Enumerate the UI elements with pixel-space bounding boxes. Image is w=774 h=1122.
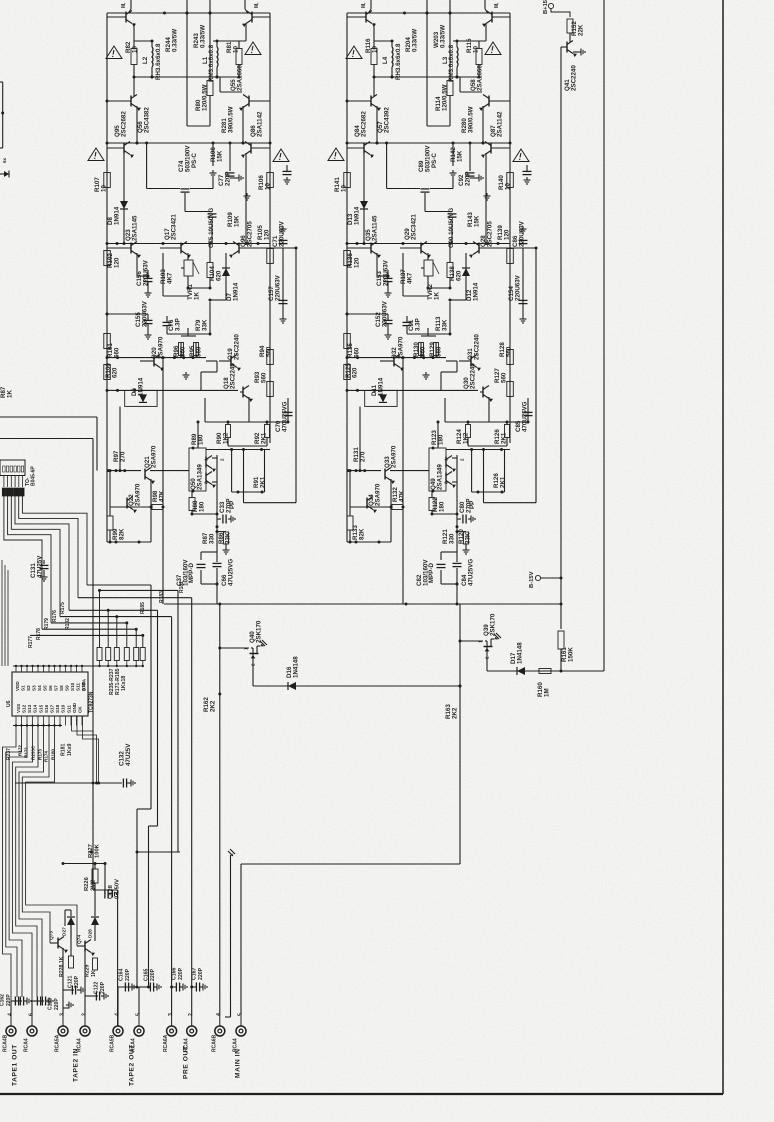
svg-text:R183: R183 bbox=[159, 591, 165, 603]
svg-text:2SA1145: 2SA1145 bbox=[371, 215, 378, 241]
svg-text:2SA1668: 2SA1668 bbox=[476, 65, 483, 91]
svg-text:1K: 1K bbox=[91, 970, 97, 977]
svg-text:C165: C165 bbox=[144, 968, 150, 981]
svg-text:C163: C163 bbox=[48, 998, 54, 1010]
svg-text:100K: 100K bbox=[94, 843, 100, 858]
svg-text:GND: GND bbox=[72, 702, 77, 713]
svg-text:2M2: 2M2 bbox=[90, 880, 96, 891]
svg-text:2SC2240: 2SC2240 bbox=[469, 363, 476, 389]
svg-text:560: 560 bbox=[435, 346, 442, 357]
svg-text:120: 120 bbox=[263, 229, 270, 240]
svg-text:180: 180 bbox=[198, 501, 205, 512]
svg-text:S7: S7 bbox=[53, 685, 58, 691]
svg-text:220P: 220P bbox=[100, 981, 106, 994]
svg-text:82K: 82K bbox=[358, 528, 365, 540]
svg-text:2SA1142: 2SA1142 bbox=[496, 111, 503, 137]
svg-text:PS-C: PS-C bbox=[191, 153, 198, 168]
svg-text:1N914: 1N914 bbox=[113, 206, 120, 225]
svg-text:120: 120 bbox=[503, 229, 510, 240]
svg-text:120: 120 bbox=[113, 257, 120, 268]
svg-text:1N914: 1N914 bbox=[377, 377, 384, 396]
svg-text:RH3.6x6x0.8: RH3.6x6x0.8 bbox=[155, 43, 162, 80]
svg-text:6x: 6x bbox=[2, 157, 7, 163]
svg-text:S4: S4 bbox=[37, 685, 42, 691]
svg-text:1N914: 1N914 bbox=[472, 282, 479, 301]
svg-text:5: 5 bbox=[237, 1013, 243, 1016]
svg-text:15K: 15K bbox=[233, 215, 240, 227]
svg-text:15K: 15K bbox=[473, 215, 480, 227]
svg-text:82K: 82K bbox=[118, 528, 125, 540]
svg-text:R180: R180 bbox=[51, 749, 56, 760]
svg-text:2SC3421: 2SC3421 bbox=[170, 214, 177, 240]
svg-text:C164: C164 bbox=[119, 968, 125, 981]
svg-text:120: 120 bbox=[353, 257, 360, 268]
svg-text:R171: R171 bbox=[24, 747, 29, 758]
svg-text:620: 620 bbox=[455, 270, 462, 281]
svg-text:220P: 220P bbox=[125, 968, 131, 981]
svg-text:4K7: 4K7 bbox=[166, 272, 173, 284]
svg-text:120/0.5W: 120/0.5W bbox=[201, 84, 208, 111]
svg-text:C75 10U50VG: C75 10U50VG bbox=[208, 208, 215, 248]
svg-text:C166: C166 bbox=[172, 967, 178, 980]
svg-text:C122: C122 bbox=[94, 981, 100, 994]
svg-text:220U63V: 220U63V bbox=[274, 274, 281, 301]
svg-text:2SA970: 2SA970 bbox=[157, 336, 164, 359]
svg-text:C162: C162 bbox=[0, 994, 6, 1006]
svg-text:S18: S18 bbox=[55, 704, 60, 713]
svg-text:15K: 15K bbox=[456, 150, 463, 162]
svg-text:VDD: VDD bbox=[15, 681, 20, 691]
svg-text:S13: S13 bbox=[27, 704, 32, 713]
svg-text:620: 620 bbox=[215, 270, 222, 281]
svg-text:2: 2 bbox=[188, 1013, 194, 1016]
svg-text:2SK170: 2SK170 bbox=[489, 613, 496, 636]
svg-text:S6: S6 bbox=[48, 685, 53, 691]
svg-text:TAPE2 IN: TAPE2 IN bbox=[73, 1048, 80, 1082]
svg-text:180: 180 bbox=[197, 434, 204, 445]
svg-text:L4: L4 bbox=[382, 56, 389, 64]
svg-text:47K: 47K bbox=[158, 490, 165, 502]
svg-text:470U25VG: 470U25VG bbox=[521, 401, 528, 432]
svg-text:2K1: 2K1 bbox=[259, 476, 266, 488]
svg-text:220U63V: 220U63V bbox=[278, 220, 285, 247]
svg-text:S10: S10 bbox=[61, 704, 66, 713]
svg-text:0.33/5W: 0.33/5W bbox=[171, 29, 178, 52]
svg-text:3: 3 bbox=[59, 1013, 65, 1016]
svg-text:47U25VG: 47U25VG bbox=[467, 559, 474, 586]
svg-text:D28: D28 bbox=[88, 929, 94, 938]
svg-text:220P: 220P bbox=[198, 967, 204, 980]
svg-text:1K: 1K bbox=[193, 292, 200, 300]
svg-text:M,: M, bbox=[494, 2, 500, 8]
svg-text:2SA1349: 2SA1349 bbox=[436, 464, 443, 490]
svg-text:560: 560 bbox=[500, 372, 507, 383]
svg-text:C121: C121 bbox=[68, 975, 74, 988]
svg-text:R182: R182 bbox=[179, 581, 185, 593]
svg-text:R178: R178 bbox=[36, 628, 42, 640]
svg-text:C128: C128 bbox=[108, 884, 114, 899]
svg-text:L2: L2 bbox=[142, 56, 149, 64]
svg-text:RCA5A: RCA5A bbox=[55, 1034, 61, 1052]
svg-text:M,: M, bbox=[121, 2, 127, 8]
svg-text:R174: R174 bbox=[44, 751, 49, 762]
svg-text:R173: R173 bbox=[38, 749, 43, 760]
svg-text:270: 270 bbox=[359, 451, 366, 462]
svg-text:1N4148: 1N4148 bbox=[516, 642, 523, 664]
svg-text:RCA5B: RCA5B bbox=[110, 1034, 116, 1052]
svg-text:10: 10 bbox=[100, 185, 107, 192]
svg-text:220U63V: 220U63V bbox=[381, 300, 388, 327]
svg-text:2K2: 2K2 bbox=[451, 707, 458, 719]
svg-text:220P: 220P bbox=[6, 994, 12, 1006]
svg-text:4: 4 bbox=[216, 1013, 222, 1016]
svg-text:S12: S12 bbox=[22, 704, 27, 713]
svg-text:MPP-D: MPP-D bbox=[428, 563, 435, 583]
svg-text:2SA970: 2SA970 bbox=[374, 483, 381, 506]
svg-text:560: 560 bbox=[265, 346, 272, 357]
svg-text:330: 330 bbox=[448, 533, 455, 544]
svg-text:180: 180 bbox=[437, 434, 444, 445]
svg-text:620: 620 bbox=[111, 367, 118, 378]
svg-text:2: 2 bbox=[81, 1013, 87, 1016]
svg-text:2SA970: 2SA970 bbox=[397, 336, 404, 359]
svg-text:RM3.6x6x0.8: RM3.6x6x0.8 bbox=[208, 44, 215, 82]
svg-text:180: 180 bbox=[438, 501, 445, 512]
svg-text:CK: CK bbox=[78, 706, 83, 713]
svg-text:470U25VG: 470U25VG bbox=[281, 401, 288, 432]
svg-text:2SA970: 2SA970 bbox=[150, 445, 157, 468]
svg-text:TAPE2 OUT: TAPE2 OUT bbox=[129, 1044, 136, 1086]
svg-text:1K2: 1K2 bbox=[222, 432, 229, 444]
svg-text:390/0.5W: 390/0.5W bbox=[227, 106, 234, 133]
svg-text:1N914: 1N914 bbox=[232, 282, 239, 301]
svg-text:RCA6B: RCA6B bbox=[211, 1034, 217, 1052]
svg-text:47U25VG: 47U25VG bbox=[227, 559, 234, 586]
svg-text:560: 560 bbox=[179, 346, 186, 357]
svg-text:S8: S8 bbox=[59, 685, 64, 691]
svg-text:15K: 15K bbox=[216, 150, 223, 162]
svg-text:10: 10 bbox=[472, 46, 479, 53]
svg-text:S10: S10 bbox=[70, 682, 75, 691]
svg-text:4: 4 bbox=[7, 1013, 13, 1016]
svg-text:4: 4 bbox=[114, 1013, 120, 1016]
svg-text:33K: 33K bbox=[464, 532, 471, 544]
svg-text:M,: M, bbox=[254, 2, 260, 8]
svg-text:10: 10 bbox=[371, 46, 378, 53]
svg-text:S16: S16 bbox=[44, 704, 49, 713]
svg-text:0.33/5W: 0.33/5W bbox=[199, 25, 206, 48]
svg-text:2K1: 2K1 bbox=[260, 432, 267, 444]
svg-text:220U63V: 220U63V bbox=[382, 259, 389, 286]
svg-text:0.33/5W: 0.33/5W bbox=[439, 25, 446, 48]
svg-text:220U63V: 220U63V bbox=[518, 220, 525, 247]
svg-text:D27: D27 bbox=[62, 927, 68, 936]
svg-text:33K: 33K bbox=[201, 319, 208, 331]
svg-text:B+15V: B+15V bbox=[543, 0, 549, 14]
svg-text:2SC2240: 2SC2240 bbox=[229, 363, 236, 389]
svg-text:R102: R102 bbox=[65, 618, 71, 630]
svg-text:2SC2682: 2SC2682 bbox=[120, 111, 127, 137]
svg-text:1N914: 1N914 bbox=[353, 206, 360, 225]
svg-text:1K: 1K bbox=[433, 292, 440, 300]
svg-text:10: 10 bbox=[340, 185, 347, 192]
svg-text:220P: 220P bbox=[74, 975, 80, 988]
svg-text:2SC2240: 2SC2240 bbox=[473, 334, 480, 360]
svg-text:R229: R229 bbox=[85, 964, 91, 977]
svg-text:33K: 33K bbox=[441, 319, 448, 331]
svg-text:S2: S2 bbox=[26, 685, 31, 691]
svg-text:S5: S5 bbox=[42, 685, 47, 691]
svg-text:120/0.5W: 120/0.5W bbox=[441, 84, 448, 111]
svg-text:220U63V: 220U63V bbox=[142, 259, 149, 286]
svg-text:620: 620 bbox=[351, 367, 358, 378]
svg-text:R226: R226 bbox=[84, 876, 90, 891]
svg-text:PP: PP bbox=[469, 501, 476, 509]
svg-text:1K: 1K bbox=[6, 390, 13, 398]
svg-text:PP: PP bbox=[229, 501, 236, 509]
svg-text:2SA1668: 2SA1668 bbox=[236, 65, 243, 91]
svg-text:560: 560 bbox=[260, 372, 267, 383]
svg-text:22K: 22K bbox=[577, 24, 584, 36]
svg-text:220P: 220P bbox=[178, 967, 184, 980]
svg-text:RM3.6x6x0.8: RM3.6x6x0.8 bbox=[448, 44, 455, 82]
svg-text:R179: R179 bbox=[44, 618, 50, 630]
svg-text:560: 560 bbox=[113, 347, 120, 358]
svg-text:S1: S1 bbox=[20, 685, 25, 691]
svg-text:330: 330 bbox=[208, 533, 215, 544]
svg-text:220U63V: 220U63V bbox=[141, 300, 148, 327]
svg-text:DATA: DATA bbox=[82, 678, 87, 691]
svg-text:1K2: 1K2 bbox=[462, 432, 469, 444]
svg-text:2SA970: 2SA970 bbox=[390, 445, 397, 468]
svg-text:1N4148: 1N4148 bbox=[292, 656, 299, 678]
svg-text:RCA4B: RCA4B bbox=[3, 1034, 9, 1052]
svg-text:Q73: Q73 bbox=[49, 931, 55, 940]
svg-text:2SC4382: 2SC4382 bbox=[143, 107, 150, 133]
svg-text:2SC2240: 2SC2240 bbox=[233, 334, 240, 360]
svg-text:B045-6P: B045-6P bbox=[30, 466, 36, 486]
svg-text:MAIN IN: MAIN IN bbox=[235, 1049, 242, 1078]
svg-text:RH3.6x6x0.8: RH3.6x6x0.8 bbox=[395, 43, 402, 80]
svg-text:PRE OUT: PRE OUT bbox=[183, 1045, 190, 1079]
svg-text:VSS: VSS bbox=[16, 704, 21, 713]
svg-text:3: 3 bbox=[168, 1013, 174, 1016]
svg-text:220P: 220P bbox=[224, 172, 231, 186]
svg-text:2SC3421: 2SC3421 bbox=[410, 214, 417, 240]
svg-text:B-15V: B-15V bbox=[529, 571, 535, 588]
svg-text:4K7: 4K7 bbox=[406, 272, 413, 284]
svg-text:C90 10U50VG: C90 10U50VG bbox=[448, 208, 455, 248]
svg-text:220P: 220P bbox=[150, 968, 156, 981]
svg-text:U6: U6 bbox=[6, 700, 12, 707]
svg-text:1N914: 1N914 bbox=[137, 377, 144, 396]
svg-text:560: 560 bbox=[195, 346, 202, 357]
svg-text:1M: 1M bbox=[543, 688, 550, 697]
svg-text:2SA1349: 2SA1349 bbox=[196, 464, 203, 490]
svg-text:2SA1142: 2SA1142 bbox=[256, 111, 263, 137]
svg-text:2SC2682: 2SC2682 bbox=[360, 111, 367, 137]
svg-text:R181: R181 bbox=[61, 743, 67, 756]
svg-text:R175: R175 bbox=[60, 602, 66, 614]
svg-text:PS-C: PS-C bbox=[431, 153, 438, 168]
svg-text:220U63V: 220U63V bbox=[514, 274, 521, 301]
svg-text:RCA4: RCA4 bbox=[24, 1038, 30, 1052]
svg-text:S17: S17 bbox=[50, 704, 55, 713]
svg-text:0.33/5W: 0.33/5W bbox=[411, 29, 418, 52]
svg-text:2K1: 2K1 bbox=[499, 476, 506, 488]
svg-text:R185: R185 bbox=[140, 602, 146, 614]
svg-text:10: 10 bbox=[232, 46, 239, 53]
svg-text:47U25V: 47U25V bbox=[36, 555, 43, 578]
svg-text:2SK170: 2SK170 bbox=[255, 620, 262, 643]
svg-text:10: 10 bbox=[131, 46, 138, 53]
svg-text:2SC4392: 2SC4392 bbox=[383, 107, 390, 133]
svg-text:2K2: 2K2 bbox=[209, 700, 216, 712]
svg-text:C167: C167 bbox=[192, 967, 198, 980]
svg-text:33K: 33K bbox=[224, 532, 231, 544]
svg-text:270: 270 bbox=[119, 451, 126, 462]
svg-text:2SC2240: 2SC2240 bbox=[570, 65, 577, 91]
svg-text:TC9273N: TC9273N bbox=[88, 691, 94, 713]
svg-text:6: 6 bbox=[28, 1013, 34, 1016]
svg-text:MPP-D: MPP-D bbox=[188, 563, 195, 583]
svg-text:Q74: Q74 bbox=[77, 935, 83, 944]
svg-text:S15: S15 bbox=[38, 704, 43, 713]
svg-text:3.3P: 3.3P bbox=[414, 318, 421, 331]
svg-text:10: 10 bbox=[264, 183, 271, 190]
svg-text:10: 10 bbox=[504, 183, 511, 190]
svg-text:390/0.5W: 390/0.5W bbox=[467, 106, 474, 133]
svg-text:RCA6A: RCA6A bbox=[163, 1034, 169, 1052]
svg-text:2SA970: 2SA970 bbox=[134, 483, 141, 506]
svg-text:TAPE1 OUT: TAPE1 OUT bbox=[12, 1044, 19, 1086]
svg-text:5: 5 bbox=[135, 1013, 141, 1016]
svg-text:S11: S11 bbox=[75, 683, 80, 691]
svg-text:S14: S14 bbox=[33, 704, 38, 713]
svg-text:3.3P: 3.3P bbox=[174, 318, 181, 331]
svg-text:0.1/50V: 0.1/50V bbox=[114, 879, 120, 899]
svg-text:R177: R177 bbox=[28, 636, 34, 648]
svg-text:S9: S9 bbox=[64, 685, 69, 691]
svg-text:560: 560 bbox=[419, 346, 426, 357]
svg-text:220P: 220P bbox=[464, 172, 471, 186]
svg-text:220P: 220P bbox=[54, 998, 60, 1010]
svg-text:1Kx9: 1Kx9 bbox=[67, 743, 73, 756]
svg-text:R228 1K: R228 1K bbox=[59, 956, 65, 977]
svg-text:2SA1145: 2SA1145 bbox=[131, 215, 138, 241]
svg-text:2K1: 2K1 bbox=[500, 432, 507, 444]
svg-text:M,: M, bbox=[361, 2, 367, 8]
svg-text:1Kx18: 1Kx18 bbox=[121, 676, 127, 691]
svg-text:560: 560 bbox=[353, 347, 360, 358]
svg-text:R172: R172 bbox=[18, 745, 23, 756]
svg-text:R176: R176 bbox=[52, 610, 58, 622]
svg-text:S3: S3 bbox=[31, 685, 36, 691]
svg-text:150K: 150K bbox=[567, 647, 574, 662]
svg-text:47K: 47K bbox=[398, 490, 405, 502]
svg-text:47U25V: 47U25V bbox=[125, 743, 132, 766]
svg-text:2SC2705: 2SC2705 bbox=[246, 221, 253, 247]
svg-text:2SC2705: 2SC2705 bbox=[486, 221, 493, 247]
svg-text:R233C: R233C bbox=[31, 745, 36, 760]
svg-text:560: 560 bbox=[505, 346, 512, 357]
svg-text:S11: S11 bbox=[66, 705, 71, 713]
